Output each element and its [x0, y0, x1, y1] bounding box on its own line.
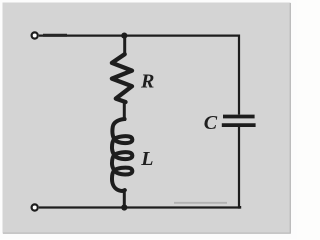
wire: right vertical upper (top corner to capacitor top plate): [238, 35, 240, 115]
wire: right vertical lower (capacitor bottom plate to bottom corner): [238, 127, 240, 209]
svg-text:L: L: [140, 148, 153, 170]
terminal: top-left open circle: [32, 32, 38, 38]
wire: stub between resistor and inductor: [123, 102, 126, 122]
wire: doubled ink segment on top wire (scan artifact): [43, 34, 67, 37]
wire: faint ghost line above bottom wire (scan artifact): [174, 202, 227, 204]
inductor L1 coil: [112, 119, 132, 191]
resistor R1 zigzag: [112, 54, 132, 102]
wire: top horizontal from terminal to right branch: [39, 34, 239, 36]
terminal: bottom-left open circle: [32, 204, 38, 210]
wire: bottom horizontal: [39, 206, 240, 208]
capacitor C1 top plate: [223, 115, 255, 119]
node: top junction dot: [121, 33, 127, 39]
wire: stub from top junction to resistor: [123, 36, 126, 56]
wire: stub from inductor to bottom junction: [123, 189, 126, 208]
svg-text:C: C: [204, 112, 218, 134]
node: bottom junction dot: [121, 204, 127, 210]
svg-text:R: R: [140, 71, 154, 93]
capacitor C1 bottom plate: [222, 123, 256, 127]
